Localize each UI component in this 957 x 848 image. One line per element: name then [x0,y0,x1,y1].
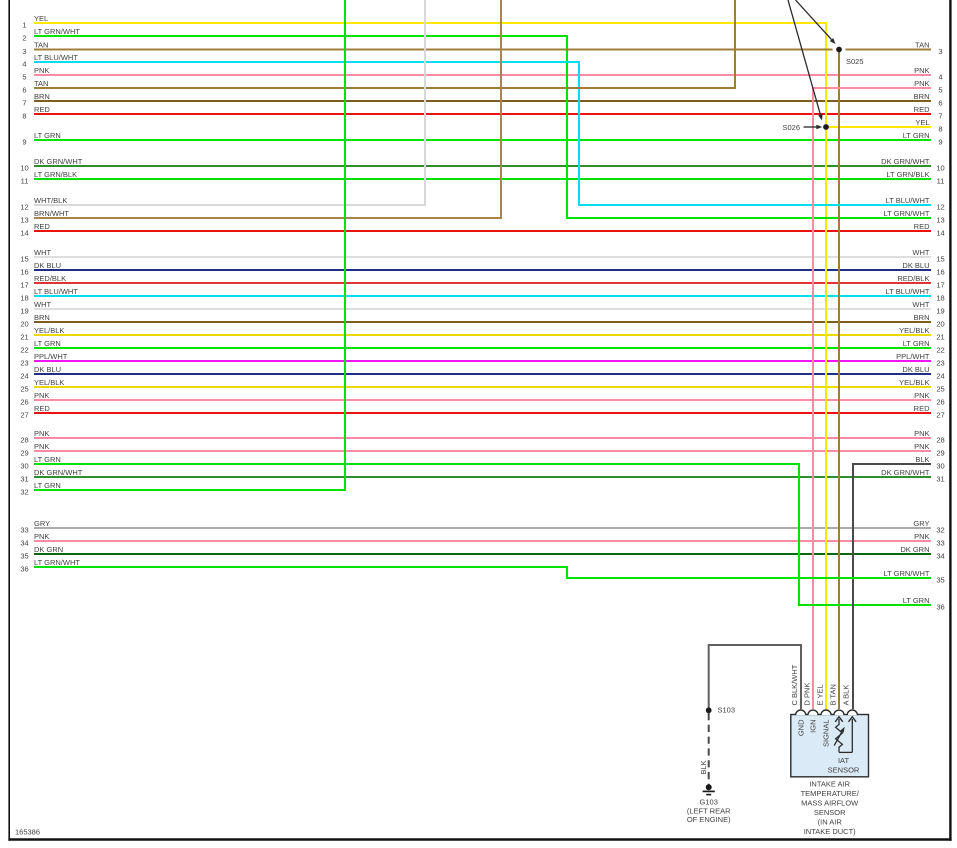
svg-text:14: 14 [936,228,944,237]
svg-text:YEL/BLK: YEL/BLK [34,378,64,387]
svg-text:8: 8 [938,124,942,133]
pointer line from top to splice S025 [796,0,836,44]
svg-text:PNK: PNK [914,79,929,88]
svg-text:27: 27 [20,410,28,419]
svg-text:RED/BLK: RED/BLK [897,274,929,283]
svg-text:16: 16 [20,267,28,276]
svg-text:G103: G103 [700,798,718,807]
wire YEL pin 1 to splice S026 and IAT sensor pin E [22,14,826,709]
svg-text:LT GRN: LT GRN [34,481,61,490]
wire BRN pin 20 to pin 20 [20,313,944,328]
wire LT BLU/WHT pin 18 to pin 18 [20,287,944,302]
svg-text:LT GRN: LT GRN [903,596,930,605]
svg-text:19: 19 [936,306,944,315]
wire LT GRN pin 9 to pin 9 [22,131,942,146]
svg-text:3: 3 [938,47,942,56]
svg-text:PNK: PNK [914,532,929,541]
svg-text:11: 11 [937,176,945,185]
svg-text:TAN: TAN [34,41,48,50]
svg-text:7: 7 [938,111,942,120]
svg-text:DK GRN/WHT: DK GRN/WHT [881,157,930,166]
svg-text:20: 20 [20,319,28,328]
svg-text:BRN/WHT: BRN/WHT [34,209,69,218]
svg-text:PNK: PNK [34,429,49,438]
wire PNK pin 26 to pin 26 [20,391,944,406]
svg-text:SENSOR: SENSOR [828,766,860,775]
svg-text:DK GRN/WHT: DK GRN/WHT [34,157,83,166]
wire LT GRN pin 30 to pin 36 [20,455,944,611]
svg-text:LT GRN: LT GRN [34,339,61,348]
svg-text:14: 14 [20,228,28,237]
wire PNK pin 5 to pin 4 [22,66,942,81]
svg-text:BRN: BRN [914,313,930,322]
splice S026 [782,123,828,132]
svg-text:PNK: PNK [34,532,49,541]
svg-text:C BLK/WHT: C BLK/WHT [790,664,799,705]
wire TAN pin 6 up off page [22,0,735,94]
svg-text:LT GRN/BLK: LT GRN/BLK [34,170,77,179]
wire RED pin 27 to pin 27 [20,404,944,419]
svg-text:26: 26 [936,397,944,406]
svg-text:LT GRN: LT GRN [903,131,930,140]
svg-text:DK GRN: DK GRN [900,545,929,554]
svg-text:6: 6 [22,85,26,94]
svg-text:A BLK: A BLK [842,685,851,706]
svg-text:WHT: WHT [912,300,929,309]
svg-text:PNK: PNK [34,442,49,451]
svg-text:GRY: GRY [34,519,50,528]
svg-text:36: 36 [20,564,28,573]
svg-text:LT BLU/WHT: LT BLU/WHT [886,287,930,296]
svg-text:LT GRN/BLK: LT GRN/BLK [886,170,929,179]
svg-text:(IN AIR: (IN AIR [818,818,843,827]
svg-text:RED: RED [34,404,50,413]
svg-text:BLK: BLK [699,760,708,774]
svg-text:TAN: TAN [915,41,929,50]
arrow to splice S026 [804,125,823,130]
svg-text:DK BLU: DK BLU [34,365,61,374]
svg-text:LT BLU/WHT: LT BLU/WHT [34,53,78,62]
IAT sensor caption [801,779,860,836]
svg-text:4: 4 [938,72,942,81]
svg-text:9: 9 [938,137,942,146]
svg-text:RED/BLK: RED/BLK [34,274,66,283]
svg-text:20: 20 [936,319,944,328]
wire LT GRN/WHT pin 2 to pin 13 [22,27,944,224]
wire DK GRN pin 35 to pin 34 [20,545,944,560]
svg-text:18: 18 [936,293,944,302]
wire PPL/WHT pin 23 to pin 23 [20,352,944,367]
svg-text:YEL: YEL [34,14,48,23]
svg-text:165386: 165386 [15,828,40,837]
ground G103 [687,784,731,824]
wire WHT pin 19 to pin 19 [20,300,944,315]
svg-text:DK BLU: DK BLU [902,365,929,374]
wire BRN pin 7 to pin 6 [22,92,942,107]
svg-text:16: 16 [936,267,944,276]
svg-text:34: 34 [20,538,28,547]
wire LT GRN pin 32 up off page [20,0,345,496]
svg-text:33: 33 [20,525,28,534]
svg-text:35: 35 [20,551,28,560]
wire WHT pin 15 to pin 15 [20,248,944,263]
svg-text:26: 26 [20,397,28,406]
svg-text:15: 15 [936,254,944,263]
svg-text:32: 32 [20,487,28,496]
wire TAN pin 3 to pin 3 through splice S025 [22,41,942,56]
svg-text:1: 1 [22,20,26,29]
svg-text:24: 24 [936,371,944,380]
wire BLK splice S103 to ground G103 [699,713,709,785]
svg-text:21: 21 [20,332,28,341]
svg-text:7: 7 [22,98,26,107]
wire PNK pin 5 to IAT sensor pin D [813,79,943,709]
svg-text:LT GRN: LT GRN [903,339,930,348]
svg-text:RED: RED [34,222,50,231]
svg-text:RED: RED [914,404,930,413]
svg-text:19: 19 [20,306,28,315]
IAT sensor (intake air temperature / mass airflow sensor) [791,715,869,777]
svg-text:BRN: BRN [34,92,50,101]
svg-text:D PNK: D PNK [802,683,811,706]
svg-text:BRN: BRN [914,92,930,101]
wire PNK pin 29 to pin 29 [20,442,944,457]
svg-text:LT GRN/WHT: LT GRN/WHT [884,209,930,218]
svg-text:PNK: PNK [34,391,49,400]
svg-text:12: 12 [936,202,944,211]
svg-text:36: 36 [936,602,944,611]
svg-text:B TAN: B TAN [828,684,837,705]
IAT sensor name label [828,756,860,775]
svg-text:OF ENGINE): OF ENGINE) [687,815,731,824]
wire YEL/BLK pin 25 to pin 25 [20,378,944,393]
svg-text:LT BLU/WHT: LT BLU/WHT [886,196,930,205]
svg-text:24: 24 [20,371,28,380]
svg-text:YEL: YEL [915,118,929,127]
wire BLK/WHT IAT sensor pin C to splice S103 [709,645,801,710]
svg-text:RED: RED [34,105,50,114]
svg-text:2: 2 [22,33,26,42]
svg-text:PPL/WHT: PPL/WHT [896,352,930,361]
svg-text:IGN: IGN [809,720,818,733]
svg-text:4: 4 [22,59,26,68]
wire GRY pin 33 to pin 32 [20,519,944,534]
svg-text:DK GRN/WHT: DK GRN/WHT [34,468,83,477]
svg-text:8: 8 [22,111,26,120]
svg-text:30: 30 [936,461,944,470]
svg-text:SENSOR: SENSOR [814,808,846,817]
svg-text:15: 15 [20,254,28,263]
svg-text:LT BLU/WHT: LT BLU/WHT [34,287,78,296]
wire PNK pin 28 to pin 28 [20,429,944,444]
svg-text:PNK: PNK [914,391,929,400]
svg-text:21: 21 [936,332,944,341]
svg-text:GRY: GRY [913,519,929,528]
svg-text:10: 10 [20,163,28,172]
svg-text:22: 22 [20,345,28,354]
wire PNK pin 34 to pin 33 [20,532,944,547]
svg-text:31: 31 [936,474,944,483]
svg-text:17: 17 [20,280,28,289]
IAT sensor pin C connector bump [796,710,806,715]
svg-text:RED: RED [914,222,930,231]
svg-text:28: 28 [20,435,28,444]
svg-text:23: 23 [936,358,944,367]
svg-text:DK GRN/WHT: DK GRN/WHT [881,468,930,477]
svg-text:PPL/WHT: PPL/WHT [34,352,68,361]
svg-text:29: 29 [936,448,944,457]
svg-text:11: 11 [21,176,29,185]
wire LT GRN/BLK pin 11 to pin 11 [21,170,945,185]
wire RED/BLK pin 17 to pin 17 [20,274,944,289]
wire RED pin 8 to pin 7 [22,105,942,120]
wire WHT/BLK pin 12 up off page [20,0,425,211]
svg-text:LT GRN: LT GRN [34,455,61,464]
svg-text:BLK: BLK [915,455,929,464]
wire DK GRN/WHT pin 10 to pin 10 [20,157,944,172]
svg-text:LT GRN: LT GRN [34,131,61,140]
svg-text:DK GRN: DK GRN [34,545,63,554]
svg-text:LT GRN/WHT: LT GRN/WHT [34,558,80,567]
svg-text:22: 22 [936,345,944,354]
svg-text:25: 25 [20,384,28,393]
IAT sensor pin A connector bump [847,710,857,715]
svg-text:34: 34 [936,551,944,560]
IAT sensor pin B connector bump [834,710,844,715]
svg-text:BRN: BRN [34,313,50,322]
svg-text:25: 25 [936,384,944,393]
svg-text:S103: S103 [718,706,736,715]
IAT sensor pin D connector bump [808,710,818,715]
svg-text:13: 13 [936,215,944,224]
svg-text:WHT: WHT [912,248,929,257]
svg-text:MASS AIRFLOW: MASS AIRFLOW [801,798,859,807]
svg-text:32: 32 [936,525,944,534]
svg-text:PNK: PNK [914,429,929,438]
wire TAN splice S025 to IAT sensor pin B [838,52,840,709]
splice S025 [836,47,863,66]
svg-text:PNK: PNK [914,442,929,451]
svg-text:27: 27 [936,410,944,419]
svg-text:6: 6 [938,98,942,107]
svg-text:GND: GND [796,719,805,736]
svg-text:31: 31 [20,474,28,483]
thermistor element inside IAT sensor [834,717,856,753]
wire DK GRN/WHT pin 31 to pin 31 [20,468,944,483]
svg-text:E YEL: E YEL [815,684,824,705]
wire BRN/WHT pin 13 up off page [20,0,501,224]
svg-text:9: 9 [22,137,26,146]
svg-text:DK BLU: DK BLU [902,261,929,270]
svg-text:28: 28 [936,435,944,444]
wire RED pin 14 to pin 14 [20,222,944,237]
svg-text:LT GRN/WHT: LT GRN/WHT [34,27,80,36]
svg-text:10: 10 [936,163,944,172]
wire YEL splice S026 branch to pin 8 [826,118,943,133]
svg-text:YEL/BLK: YEL/BLK [899,378,929,387]
svg-text:RED: RED [914,105,930,114]
svg-text:TAN: TAN [34,79,48,88]
svg-text:3: 3 [22,47,26,56]
svg-text:30: 30 [20,461,28,470]
wire LT GRN pin 22 to pin 22 [20,339,944,354]
svg-text:5: 5 [938,85,942,94]
svg-text:INTAKE DUCT): INTAKE DUCT) [804,827,856,836]
splice S103 [706,706,735,715]
svg-text:PNK: PNK [914,66,929,75]
svg-text:S025: S025 [846,57,864,66]
svg-text:WHT/BLK: WHT/BLK [34,196,67,205]
svg-text:TEMPERATURE/: TEMPERATURE/ [801,789,860,798]
pointer line from top to splice S026 [788,0,823,121]
svg-text:IAT: IAT [838,756,850,765]
svg-text:33: 33 [936,538,944,547]
svg-text:35: 35 [936,575,944,584]
svg-text:29: 29 [20,448,28,457]
IAT sensor pin E connector bump [821,710,831,715]
wire DK BLU pin 24 to pin 24 [20,365,944,380]
svg-text:PNK: PNK [34,66,49,75]
svg-text:13: 13 [20,215,28,224]
svg-text:S026: S026 [782,123,800,132]
svg-text:18: 18 [20,293,28,302]
svg-text:WHT: WHT [34,248,51,257]
svg-text:12: 12 [20,202,28,211]
wire LT BLU/WHT pin 4 to pin 12 [22,53,944,211]
svg-text:WHT: WHT [34,300,51,309]
svg-text:LT GRN/WHT: LT GRN/WHT [884,569,930,578]
wire YEL/BLK pin 21 to pin 21 [20,326,944,341]
wire BLK pin 30 to IAT sensor pin A [853,455,945,709]
svg-text:YEL/BLK: YEL/BLK [34,326,64,335]
wire DK BLU pin 16 to pin 16 [20,261,944,276]
svg-text:23: 23 [20,358,28,367]
svg-text:DK BLU: DK BLU [34,261,61,270]
svg-text:SIGNAL: SIGNAL [822,720,831,748]
wire LT GRN/WHT pin 36 to pin 35 [20,558,944,584]
svg-text:5: 5 [22,72,26,81]
svg-text:YEL/BLK: YEL/BLK [899,326,929,335]
svg-text:17: 17 [936,280,944,289]
svg-text:INTAKE AIR: INTAKE AIR [809,779,850,788]
